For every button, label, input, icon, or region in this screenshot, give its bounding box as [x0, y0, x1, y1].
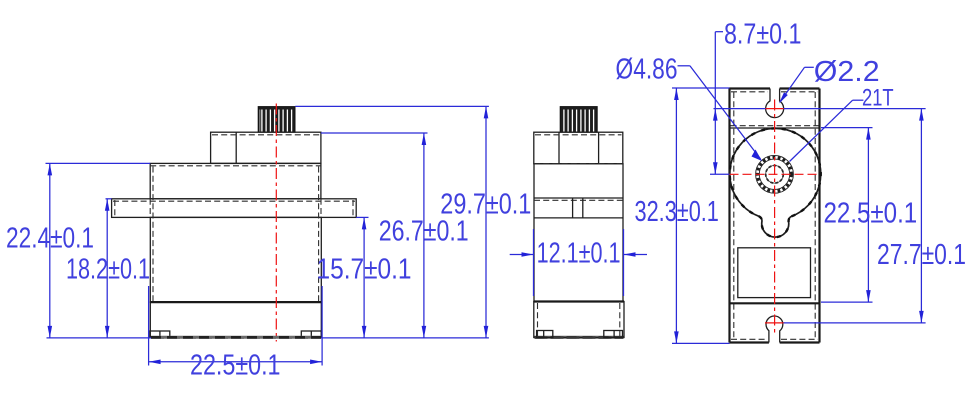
dimension 12.1 extension lines	[534, 229, 624, 296]
dimension 8.7 leader and line	[713, 32, 723, 175]
dimension 15.7 line	[362, 217, 367, 338]
side view bottom edge band	[535, 336, 624, 339]
front view main body	[150, 167, 321, 303]
svg-text:27.7±0.1: 27.7±0.1	[877, 239, 966, 271]
extension line upper body top	[46, 162, 151, 164]
side view flange band	[534, 198, 623, 218]
svg-text:22.4±0.1: 22.4±0.1	[6, 223, 94, 255]
svg-text:18.2±0.1: 18.2±0.1	[66, 254, 150, 286]
front view left foot	[150, 331, 170, 337]
front view bottom edge band	[151, 336, 321, 339]
dimension 22.5 bottom line	[149, 360, 323, 365]
leader diameter 2.2	[779, 67, 814, 103]
front view upper body	[150, 163, 321, 198]
dimension 32.3 line	[674, 88, 679, 343]
svg-text:32.3±0.1: 32.3±0.1	[635, 196, 719, 228]
side view spline shaft	[560, 107, 597, 133]
svg-text:12.1±0.1: 12.1±0.1	[537, 238, 621, 270]
top view screw slot top	[766, 89, 784, 118]
top hole red tick	[765, 108, 785, 110]
side view right foot	[604, 331, 623, 338]
svg-text:8.7±0.1: 8.7±0.1	[724, 19, 801, 51]
dimension 18.2 line	[105, 199, 110, 338]
top view label window	[738, 248, 811, 298]
dimension 27.7 line	[919, 109, 924, 323]
dimension 26.7 line	[422, 133, 427, 338]
side view body	[534, 164, 623, 302]
dimension 22.5 right extension lines	[821, 128, 873, 303]
extension line hole centers horizontal	[714, 108, 926, 110]
baseline extension	[47, 337, 489, 339]
dimension 29.7 line	[484, 106, 489, 338]
svg-text:22.5±0.1: 22.5±0.1	[824, 198, 918, 230]
top view spline inner circle	[766, 166, 784, 184]
front view spline shaft	[258, 107, 295, 133]
top view red vertical centerline	[774, 100, 776, 333]
leader diameter 4.86	[678, 66, 763, 161]
front view red centerline	[275, 104, 277, 342]
top view body edge upper	[730, 126, 820, 128]
top view spline ring	[758, 157, 792, 191]
extension line flange top left	[106, 198, 112, 200]
svg-text:Ø2.2: Ø2.2	[814, 56, 880, 88]
svg-text:29.7±0.1: 29.7±0.1	[440, 189, 531, 221]
dimension 12.1 arrows	[510, 252, 647, 257]
leader 21T	[790, 100, 864, 161]
extension line gear center left	[710, 173, 730, 175]
side view left foot	[537, 331, 553, 338]
side view top cap	[534, 132, 623, 164]
front view mounting flange	[112, 199, 357, 218]
dimension 22.4 line	[48, 163, 53, 338]
top view screw slot bottom	[766, 316, 783, 343]
front view bottom cap	[150, 302, 321, 337]
dimension 22.5 bottom extension lines	[149, 286, 323, 366]
bottom hole red tick	[765, 322, 785, 324]
top view body edge lower	[730, 302, 820, 304]
dimension 22.5 right line	[866, 128, 871, 303]
side view bottom cap	[534, 302, 624, 338]
svg-text:15.7±0.1: 15.7±0.1	[317, 254, 412, 286]
dimension 32.3 extension lines	[672, 88, 730, 343]
svg-text:Ø4.86: Ø4.86	[616, 54, 678, 86]
svg-text:21T: 21T	[862, 85, 894, 112]
dimension 27.7 extension line bottom	[784, 322, 926, 324]
svg-text:22.5±0.1: 22.5±0.1	[190, 350, 281, 382]
extension line flange bottom right	[356, 216, 368, 218]
front view top housing	[211, 132, 321, 163]
top view red horizontal centerline	[730, 173, 821, 175]
extension line top housing	[321, 132, 428, 134]
top view gear outline	[730, 128, 821, 237]
extension line spline top	[295, 105, 489, 107]
top view bracket outline	[730, 89, 820, 343]
front view right foot	[301, 331, 321, 337]
